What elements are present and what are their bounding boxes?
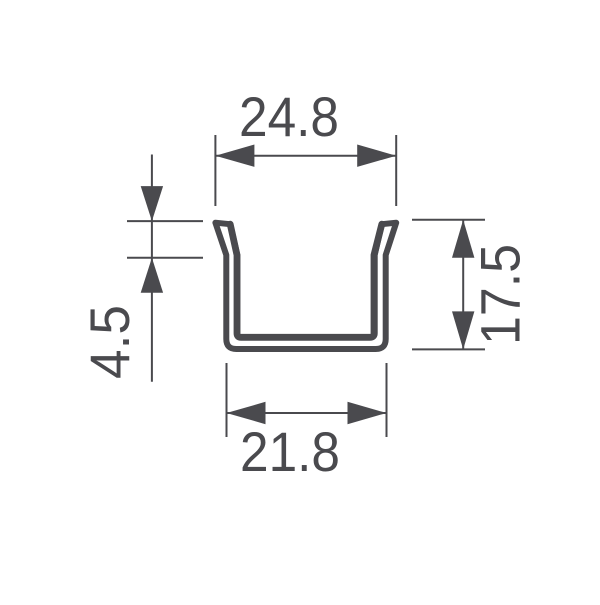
bottom dimension arrow left bbox=[227, 402, 266, 424]
left dimension arrow up bbox=[141, 258, 163, 293]
left dimension extension line lower bbox=[127, 257, 203, 259]
svg-text:24.8: 24.8 bbox=[239, 85, 339, 148]
svg-text:17.5: 17.5 bbox=[468, 244, 531, 345]
bottom dimension arrow right bbox=[348, 402, 387, 424]
right dimension arrow down bbox=[452, 311, 474, 349]
U-channel profile outline bbox=[215, 223, 396, 349]
right dimension extension line top bbox=[412, 219, 485, 221]
left dimension arrow down bbox=[141, 186, 163, 221]
svg-text:4.5: 4.5 bbox=[78, 305, 141, 379]
svg-text:21.8: 21.8 bbox=[240, 420, 340, 483]
profile inner surface line (slightly thicker) bbox=[230, 224, 382, 337]
bottom dimension extension line left bbox=[226, 363, 228, 437]
right dimension extension line bottom bbox=[412, 348, 485, 350]
left dimension leader line bbox=[151, 155, 153, 382]
top dimension extension line right bbox=[395, 135, 397, 206]
bottom dimension extension line right bbox=[386, 363, 388, 437]
bottom dimension line bbox=[227, 412, 387, 414]
top dimension extension line left bbox=[214, 135, 216, 206]
left dimension extension line upper bbox=[127, 220, 203, 222]
right dimension arrow up bbox=[452, 220, 474, 258]
top dimension arrow left bbox=[215, 145, 254, 167]
right dimension line bbox=[462, 220, 464, 350]
top dimension line bbox=[215, 155, 396, 157]
top dimension arrow right bbox=[357, 145, 396, 167]
